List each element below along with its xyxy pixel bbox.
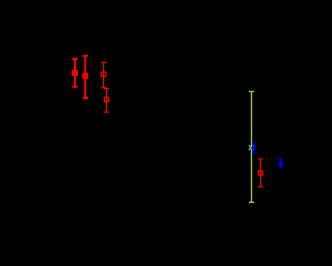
green x marker [249,145,254,150]
red filled-square data point 1 with thick error bar [72,59,78,87]
red open-square data point 5 with thin error bar [258,159,263,187]
red open-square data point 4 with thin error bar [104,88,109,112]
blue filled-circle data point B with small error bar [278,159,284,168]
red open-square data point 3 with thin error bar [101,62,106,87]
blue filled-circle data point A with small error bar [251,143,256,153]
green long error bar [249,92,254,203]
red filled-square data point 2 with thick error bar [82,56,88,98]
